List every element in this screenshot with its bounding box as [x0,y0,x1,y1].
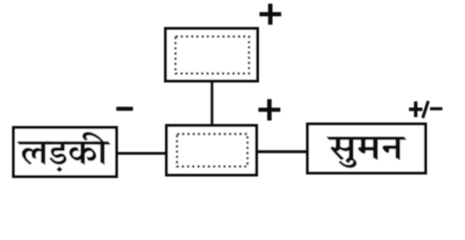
sign: plus above top box [260,4,282,25]
wire: left box to middle box [118,152,166,155]
sign: plus/minus above right box [409,101,442,118]
node: middle box (empty, dotted inner) [167,126,257,176]
wire: vertical link from top box to middle box [211,82,214,125]
label: सुमन (vector path) [327,137,407,168]
label: लड़की (vector path) [17,132,111,172]
sign: plus above middle box [258,99,280,120]
node: left box "लड़की" [14,128,117,177]
sign: minus above left box [116,107,133,111]
node: top box (empty, dotted inner) [166,29,258,82]
wire: middle box to right box [258,150,307,153]
node: right box "सुमन" [308,124,426,173]
